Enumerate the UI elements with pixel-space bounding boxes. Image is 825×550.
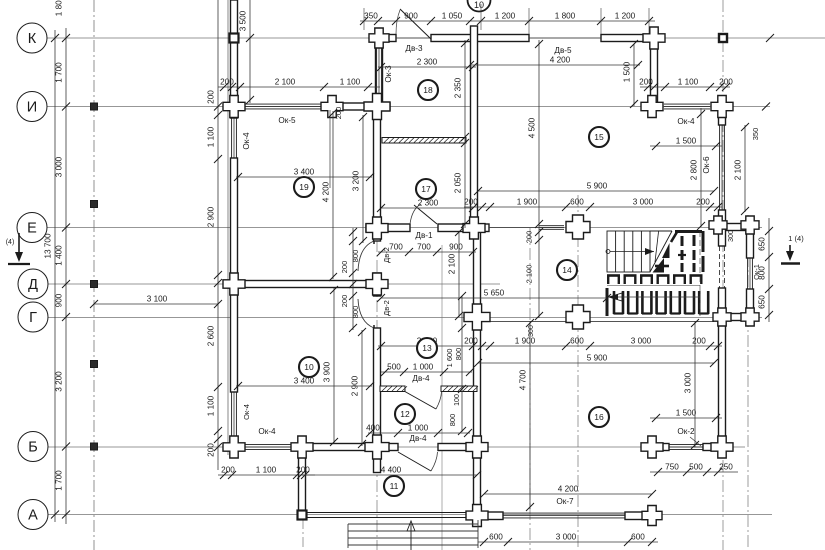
window Ok-4 on B axis xyxy=(239,445,297,450)
window Ok-4 left upper xyxy=(232,118,237,158)
svg-text:Б: Б xyxy=(28,440,38,456)
window Ok-4 left lower xyxy=(232,392,237,436)
stair down arrow xyxy=(612,296,700,298)
right wall x722 at E xyxy=(719,210,726,246)
right chain 650/800/650 xyxy=(758,218,774,322)
axis bubble K xyxy=(17,23,47,53)
door Dv-3 opening sill xyxy=(396,37,431,39)
label Ok-4 left lower xyxy=(242,404,251,420)
dim row room12 400/1000 lower xyxy=(366,424,472,438)
wall stub below B at x377 xyxy=(374,451,381,473)
dim 2100 corridor left xyxy=(448,228,464,320)
svg-text:700: 700 xyxy=(389,243,403,252)
svg-text:1 600: 1 600 xyxy=(445,349,454,368)
svg-text:19: 19 xyxy=(299,182,309,192)
svg-text:200: 200 xyxy=(340,261,349,274)
wall D axis room19/room10 xyxy=(238,281,374,288)
dim room13 chain xyxy=(458,292,466,435)
svg-text:А: А xyxy=(28,508,38,524)
vertical axis x748 xyxy=(747,215,749,550)
main interior wall x377 I to E xyxy=(374,106,381,241)
left dim chain inner (1700/3000/1400/900/3200/1700) xyxy=(55,0,71,524)
wall E axis Dv1 to x474 xyxy=(438,224,489,232)
svg-text:400: 400 xyxy=(366,424,380,433)
svg-text:800: 800 xyxy=(448,414,457,427)
dim 3500 top left xyxy=(239,0,255,104)
dim B row left 200/1100/200 xyxy=(218,466,315,480)
dim chain room 18/17 (2350/2050) xyxy=(454,39,470,228)
bay bottom wall xyxy=(726,314,746,321)
svg-text:200: 200 xyxy=(696,198,710,207)
column cross B x234 xyxy=(223,436,245,458)
svg-text:1 100: 1 100 xyxy=(256,466,277,475)
dim room16 3000 xyxy=(684,319,700,449)
column cross B x652 xyxy=(641,436,663,458)
label Ok-4 B axis xyxy=(258,427,276,436)
porch steps xyxy=(348,520,478,548)
bay right wall upper xyxy=(747,221,754,258)
dim room19 3200 xyxy=(352,113,368,245)
vertical axis x530 xyxy=(529,228,531,550)
svg-text:10: 10 xyxy=(304,362,314,372)
column cross I x722 xyxy=(711,96,733,118)
dim row under K wall 2300 xyxy=(377,58,477,72)
door Dv-2 lower opening and swing xyxy=(358,299,374,328)
main interior wall x377 door pier xyxy=(374,273,381,296)
svg-text:200: 200 xyxy=(525,231,534,244)
column marker square porch corner xyxy=(298,511,307,520)
svg-text:1 100: 1 100 xyxy=(340,78,361,87)
column cross bottom x477 xyxy=(466,505,488,527)
svg-text:2 100: 2 100 xyxy=(275,78,296,87)
svg-text:Д: Д xyxy=(28,277,38,293)
svg-text:500: 500 xyxy=(387,363,401,372)
room circle 19 xyxy=(294,177,314,197)
axis bubble G xyxy=(18,302,48,332)
svg-text:900: 900 xyxy=(404,12,418,21)
door Dv-3 leaf xyxy=(400,9,431,39)
interior wall x379 K to I with window xyxy=(376,41,383,106)
svg-text:4 200: 4 200 xyxy=(550,56,571,65)
label Ok-4 left xyxy=(242,132,251,150)
label Dv-2 lower xyxy=(382,300,391,316)
svg-text:16: 16 xyxy=(594,412,604,422)
dim room16 4700 xyxy=(519,319,535,511)
svg-text:200: 200 xyxy=(221,466,235,475)
hatched partition room13/12 right part xyxy=(441,386,478,392)
label 800 room13 xyxy=(454,348,463,361)
svg-text:300: 300 xyxy=(528,325,535,337)
svg-text:2 300: 2 300 xyxy=(418,199,439,208)
dim room16 1500 Ok-2 xyxy=(650,409,722,423)
stair lower flight treads xyxy=(607,231,672,272)
label Ok-4 right xyxy=(677,117,695,126)
right wall x722 G to B xyxy=(719,288,726,450)
column cross E bay x750 xyxy=(741,216,759,234)
wall x652 K to I xyxy=(651,36,658,107)
label 1600 room13 xyxy=(445,349,454,368)
room circle 12 xyxy=(395,404,415,424)
svg-text:Е: Е xyxy=(27,221,37,237)
svg-text:3 000: 3 000 xyxy=(631,337,652,346)
label Dv-4 lower xyxy=(409,434,427,443)
svg-text:200: 200 xyxy=(639,78,653,87)
axis line E xyxy=(45,227,762,229)
svg-text:2 900: 2 900 xyxy=(207,206,216,227)
door Dv-4a leaf and swing xyxy=(404,391,436,409)
svg-text:12: 12 xyxy=(400,409,410,419)
porch up arrow xyxy=(410,524,412,550)
svg-text:5 650: 5 650 xyxy=(484,289,505,298)
svg-text:5 900: 5 900 xyxy=(587,182,608,191)
left exterior wall upper segment xyxy=(231,0,238,118)
svg-text:250: 250 xyxy=(719,463,733,472)
free column E x578 xyxy=(566,215,590,239)
dim row 700/700/900 under E xyxy=(377,243,477,257)
wall x477 E to bottom xyxy=(474,231,481,519)
svg-text:18: 18 xyxy=(423,85,433,95)
dim row 750/500/250 xyxy=(650,463,738,477)
room circle 18 xyxy=(418,80,438,100)
svg-text:200: 200 xyxy=(334,107,343,120)
svg-text:2 100: 2 100 xyxy=(734,159,743,180)
column footing square on axis x94 #3 xyxy=(91,281,98,288)
svg-text:1 900: 1 900 xyxy=(517,198,538,207)
label 300 bay xyxy=(728,230,735,242)
svg-text:300: 300 xyxy=(728,230,735,242)
left window chain 200/1100/2900/2600/1100/200 xyxy=(207,0,223,470)
column footing square on axis x94 #5 xyxy=(91,443,98,450)
svg-text:3 900: 3 900 xyxy=(323,361,332,382)
column marker square K x234 xyxy=(230,34,239,43)
svg-text:200: 200 xyxy=(340,295,349,308)
svg-text:3 100: 3 100 xyxy=(147,295,168,304)
label 800 room12 xyxy=(448,414,457,427)
svg-text:Ок-5: Ок-5 xyxy=(278,116,296,125)
label Ok-6 xyxy=(702,156,711,174)
svg-text:Дв-1: Дв-1 xyxy=(415,231,433,240)
window Ok-5 xyxy=(240,104,326,109)
dim 2100 bay window xyxy=(734,123,750,215)
svg-text:Ок-4: Ок-4 xyxy=(242,132,251,150)
dim room10 2900 xyxy=(351,328,367,448)
svg-text:2 800: 2 800 xyxy=(690,159,699,180)
label 200 x539 chain xyxy=(525,231,534,244)
room circle 10 xyxy=(299,357,319,377)
svg-text:350: 350 xyxy=(364,12,378,21)
axis line B xyxy=(45,446,745,448)
svg-text:3 400: 3 400 xyxy=(294,377,315,386)
column cross G x722 xyxy=(713,308,731,326)
label Ok-7 xyxy=(556,497,574,506)
svg-text:4 200: 4 200 xyxy=(558,485,579,494)
room 16 top beam line xyxy=(484,321,714,323)
column cross I x377 big xyxy=(364,94,390,120)
window Ok-7 xyxy=(503,513,625,518)
svg-text:900: 900 xyxy=(55,293,64,307)
stair middle landing comb xyxy=(607,275,703,284)
svg-text:2 600: 2 600 xyxy=(207,325,216,346)
column cross I x652 xyxy=(641,96,663,118)
dim bottom row 600/3000/600 xyxy=(478,533,658,547)
label Dv-1 xyxy=(415,231,433,240)
window Ok-2 on B axis xyxy=(669,445,703,450)
svg-text:1 800: 1 800 xyxy=(55,0,64,16)
stair upper flight dashed marks xyxy=(653,231,704,273)
dim 2800 Ok-6 xyxy=(690,108,706,230)
wall K axis segment Dv3-Dv5 xyxy=(431,35,529,42)
svg-text:1 050: 1 050 xyxy=(442,12,463,21)
dim room10 3900 xyxy=(323,286,339,446)
column cross B x477 xyxy=(466,436,488,458)
window Ok-6 xyxy=(720,125,725,210)
axis bubble A xyxy=(18,500,48,530)
stair dashed landing boundary xyxy=(699,231,701,316)
porch left wall below B xyxy=(299,451,306,511)
section mark (4) left xyxy=(6,233,30,264)
svg-text:3 400: 3 400 xyxy=(294,168,315,177)
label 200 Dv-2 lower xyxy=(340,295,349,308)
door Dv-5 opening sill xyxy=(529,37,601,39)
column cross G x750 xyxy=(741,308,759,326)
room circle 16 xyxy=(589,407,609,427)
svg-text:800: 800 xyxy=(454,348,463,361)
wall B pier left of Ok-2 xyxy=(657,444,669,451)
svg-text:650: 650 xyxy=(758,237,767,251)
svg-text:3 000: 3 000 xyxy=(684,372,693,393)
svg-text:И: И xyxy=(27,100,37,116)
svg-text:(4): (4) xyxy=(6,239,15,246)
svg-text:13: 13 xyxy=(422,343,432,353)
svg-text:3 500: 3 500 xyxy=(239,10,248,31)
label 300 x539 chain G xyxy=(528,325,535,337)
axis bubble I xyxy=(17,92,47,122)
svg-text:Ок-4: Ок-4 xyxy=(677,117,695,126)
label Ok-2 xyxy=(677,427,695,436)
wall B pier right of Ok-2 xyxy=(703,444,719,451)
window Ok-4 top right xyxy=(664,104,710,109)
door Dv-1 leaf and swing xyxy=(414,205,437,224)
svg-text:1 700: 1 700 xyxy=(55,62,64,83)
svg-text:650: 650 xyxy=(758,295,767,309)
dim room11 4400 xyxy=(297,466,481,480)
label 200 Dv-2 upper xyxy=(340,261,349,274)
column cross E x474 xyxy=(463,217,485,239)
svg-text:5 900: 5 900 xyxy=(587,354,608,363)
column cross D x377 xyxy=(366,273,388,295)
wall E axis room19 to corridor xyxy=(366,224,410,232)
dim 1500 top right xyxy=(623,40,639,108)
wall B axis pier left xyxy=(231,444,240,451)
label 800 Dv-2 lower xyxy=(351,306,360,319)
room circle 17 xyxy=(416,179,436,199)
vertical dash below porch x303 xyxy=(302,519,304,550)
label Dv-3 xyxy=(405,44,423,53)
axis bubble D xyxy=(18,269,48,299)
door Dv-2 upper opening and swing xyxy=(358,241,374,271)
svg-text:10: 10 xyxy=(474,0,484,10)
svg-text:1 100: 1 100 xyxy=(207,395,216,416)
stair walking line with arrow xyxy=(606,250,610,254)
room circle 13 xyxy=(417,338,437,358)
window Ok-1 bay xyxy=(748,258,753,289)
svg-text:2 900: 2 900 xyxy=(351,375,360,396)
dim 5650 corridor xyxy=(377,289,611,303)
svg-text:Дв-4: Дв-4 xyxy=(409,434,427,443)
dim 5900 corridor top xyxy=(474,182,718,196)
wall I axis pier xyxy=(328,103,390,110)
svg-text:200: 200 xyxy=(207,90,216,104)
svg-text:Дв-4: Дв-4 xyxy=(412,374,430,383)
svg-text:2 350: 2 350 xyxy=(454,77,463,98)
column marker square K x723 xyxy=(719,34,727,42)
column cross G x477 big xyxy=(464,304,490,330)
door Dv-4b leaf and swing xyxy=(398,452,431,471)
sill E axis short xyxy=(539,226,564,230)
svg-text:3 000: 3 000 xyxy=(556,533,577,542)
vertical axis through wall x377 xyxy=(376,100,378,550)
svg-text:Ок-3: Ок-3 xyxy=(384,65,393,83)
axis line I xyxy=(45,106,770,108)
label Ok-1 xyxy=(752,264,761,280)
svg-text:1 100: 1 100 xyxy=(678,78,699,87)
dim 5900 room16 top xyxy=(474,354,718,368)
bay top wall xyxy=(726,224,748,231)
left wall extension line xyxy=(227,0,229,455)
sill line E opening xyxy=(489,227,539,229)
bay right wall lower xyxy=(747,289,754,320)
axis line A xyxy=(45,514,772,516)
svg-text:1 000: 1 000 xyxy=(413,363,434,372)
svg-text:4 500: 4 500 xyxy=(528,117,537,138)
label Dv-5 xyxy=(554,46,572,55)
left dim chain outer 13 700 xyxy=(44,30,60,522)
bottom wall segment right of Ok-7 xyxy=(625,512,651,520)
wall K axis segment right xyxy=(601,35,654,42)
svg-text:800: 800 xyxy=(351,250,360,263)
svg-text:1 200: 1 200 xyxy=(615,12,636,21)
column cross I x234 xyxy=(223,96,245,118)
svg-text:Ок-2: Ок-2 xyxy=(677,427,695,436)
label Ok-5 xyxy=(278,116,296,125)
svg-text:3 000: 3 000 xyxy=(633,198,654,207)
column cross B x377 xyxy=(365,435,389,459)
window Ok-3 xyxy=(377,45,382,97)
column cross K x654 xyxy=(643,27,665,49)
svg-text:200: 200 xyxy=(719,78,733,87)
section mark 1 (4) right xyxy=(781,234,804,264)
svg-text:2 100: 2 100 xyxy=(525,265,534,284)
axis bubble E xyxy=(17,213,47,243)
column cross B x722 xyxy=(711,436,733,458)
dim bottom 4200 Ok-7 xyxy=(480,485,656,499)
wall K axis left pier xyxy=(374,35,396,42)
bottom thin wall room 11 xyxy=(307,512,466,514)
dim room17 2300 xyxy=(377,199,477,213)
svg-text:800: 800 xyxy=(351,306,360,319)
extension line below I cross x330 xyxy=(329,110,331,188)
bottom wall segment left of Ok-7 xyxy=(486,512,503,520)
svg-text:1 900: 1 900 xyxy=(515,337,536,346)
svg-text:350: 350 xyxy=(751,128,760,141)
svg-text:Ок-1: Ок-1 xyxy=(752,264,761,280)
svg-text:1 700: 1 700 xyxy=(55,470,64,491)
svg-text:11: 11 xyxy=(390,481,399,491)
svg-text:Ок-4: Ок-4 xyxy=(258,427,276,436)
svg-text:Ок-4: Ок-4 xyxy=(242,404,251,420)
svg-text:200: 200 xyxy=(207,443,216,457)
dim room19 3400 xyxy=(234,168,374,182)
svg-text:1 100: 1 100 xyxy=(207,126,216,147)
svg-text:3 200: 3 200 xyxy=(55,371,64,392)
hatched partition room13/12 left part xyxy=(380,386,407,392)
svg-text:700: 700 xyxy=(417,243,431,252)
svg-text:2 050: 2 050 xyxy=(454,172,463,193)
svg-text:17: 17 xyxy=(421,184,431,194)
label 2100 x539 chain xyxy=(525,265,534,284)
svg-text:750: 750 xyxy=(665,463,679,472)
svg-text:Дв-3: Дв-3 xyxy=(405,44,423,53)
right wall door opening lines xyxy=(719,246,721,288)
column cross K x381 xyxy=(369,28,389,48)
dim row I right 200/1100/200 xyxy=(639,78,733,92)
dim chain Dv-2 doors xyxy=(349,228,357,332)
column footing square on axis x94 #2 xyxy=(91,201,98,208)
svg-text:1 500: 1 500 xyxy=(623,61,632,82)
dim 3100 bottom left xyxy=(90,295,222,309)
column cross I x332 xyxy=(321,96,343,118)
svg-text:1 400: 1 400 xyxy=(55,245,64,266)
column cross bottom x652 xyxy=(642,506,662,526)
axis line K xyxy=(45,37,825,39)
top dim row 350/900/1050/1200/1800/1200 xyxy=(360,12,655,26)
label 350 right chain xyxy=(751,128,760,141)
stair lower comb xyxy=(607,288,709,316)
vertical axis x723 xyxy=(722,0,724,550)
label Ok-3 xyxy=(384,65,393,83)
axis line G xyxy=(45,317,762,319)
wall B axis room10 segment xyxy=(302,444,377,451)
svg-text:1 000: 1 000 xyxy=(408,424,429,433)
axis line D xyxy=(45,283,500,285)
svg-text:2 300: 2 300 xyxy=(417,58,438,67)
svg-text:14: 14 xyxy=(562,265,572,275)
svg-text:500: 500 xyxy=(689,463,703,472)
svg-text:1 800: 1 800 xyxy=(555,12,576,21)
free column G x578 xyxy=(566,305,590,329)
svg-text:4 200: 4 200 xyxy=(322,181,331,202)
svg-text:4 400: 4 400 xyxy=(381,466,402,475)
vertical centerline x442 xyxy=(441,245,443,550)
svg-text:900: 900 xyxy=(449,243,463,252)
label Dv-4 upper xyxy=(412,374,430,383)
svg-text:1 200: 1 200 xyxy=(495,12,516,21)
axis bubble B xyxy=(18,432,48,462)
dim row under K wall 4200 xyxy=(466,56,642,70)
svg-text:Ок-6: Ок-6 xyxy=(702,156,711,174)
svg-text:1 500: 1 500 xyxy=(676,137,697,146)
dim room10 3400 xyxy=(234,377,374,391)
svg-text:4 700: 4 700 xyxy=(519,369,528,390)
wall B axis pier at x377 xyxy=(374,444,399,451)
dim row I left 200/2100/1100 xyxy=(218,78,380,92)
svg-text:1 500: 1 500 xyxy=(676,409,697,418)
svg-text:1 (4): 1 (4) xyxy=(788,234,804,243)
svg-text:200: 200 xyxy=(220,78,234,87)
wall B axis segment to x477 xyxy=(438,444,477,451)
svg-text:2 100: 2 100 xyxy=(448,253,457,274)
label 100 room12 xyxy=(454,394,461,406)
